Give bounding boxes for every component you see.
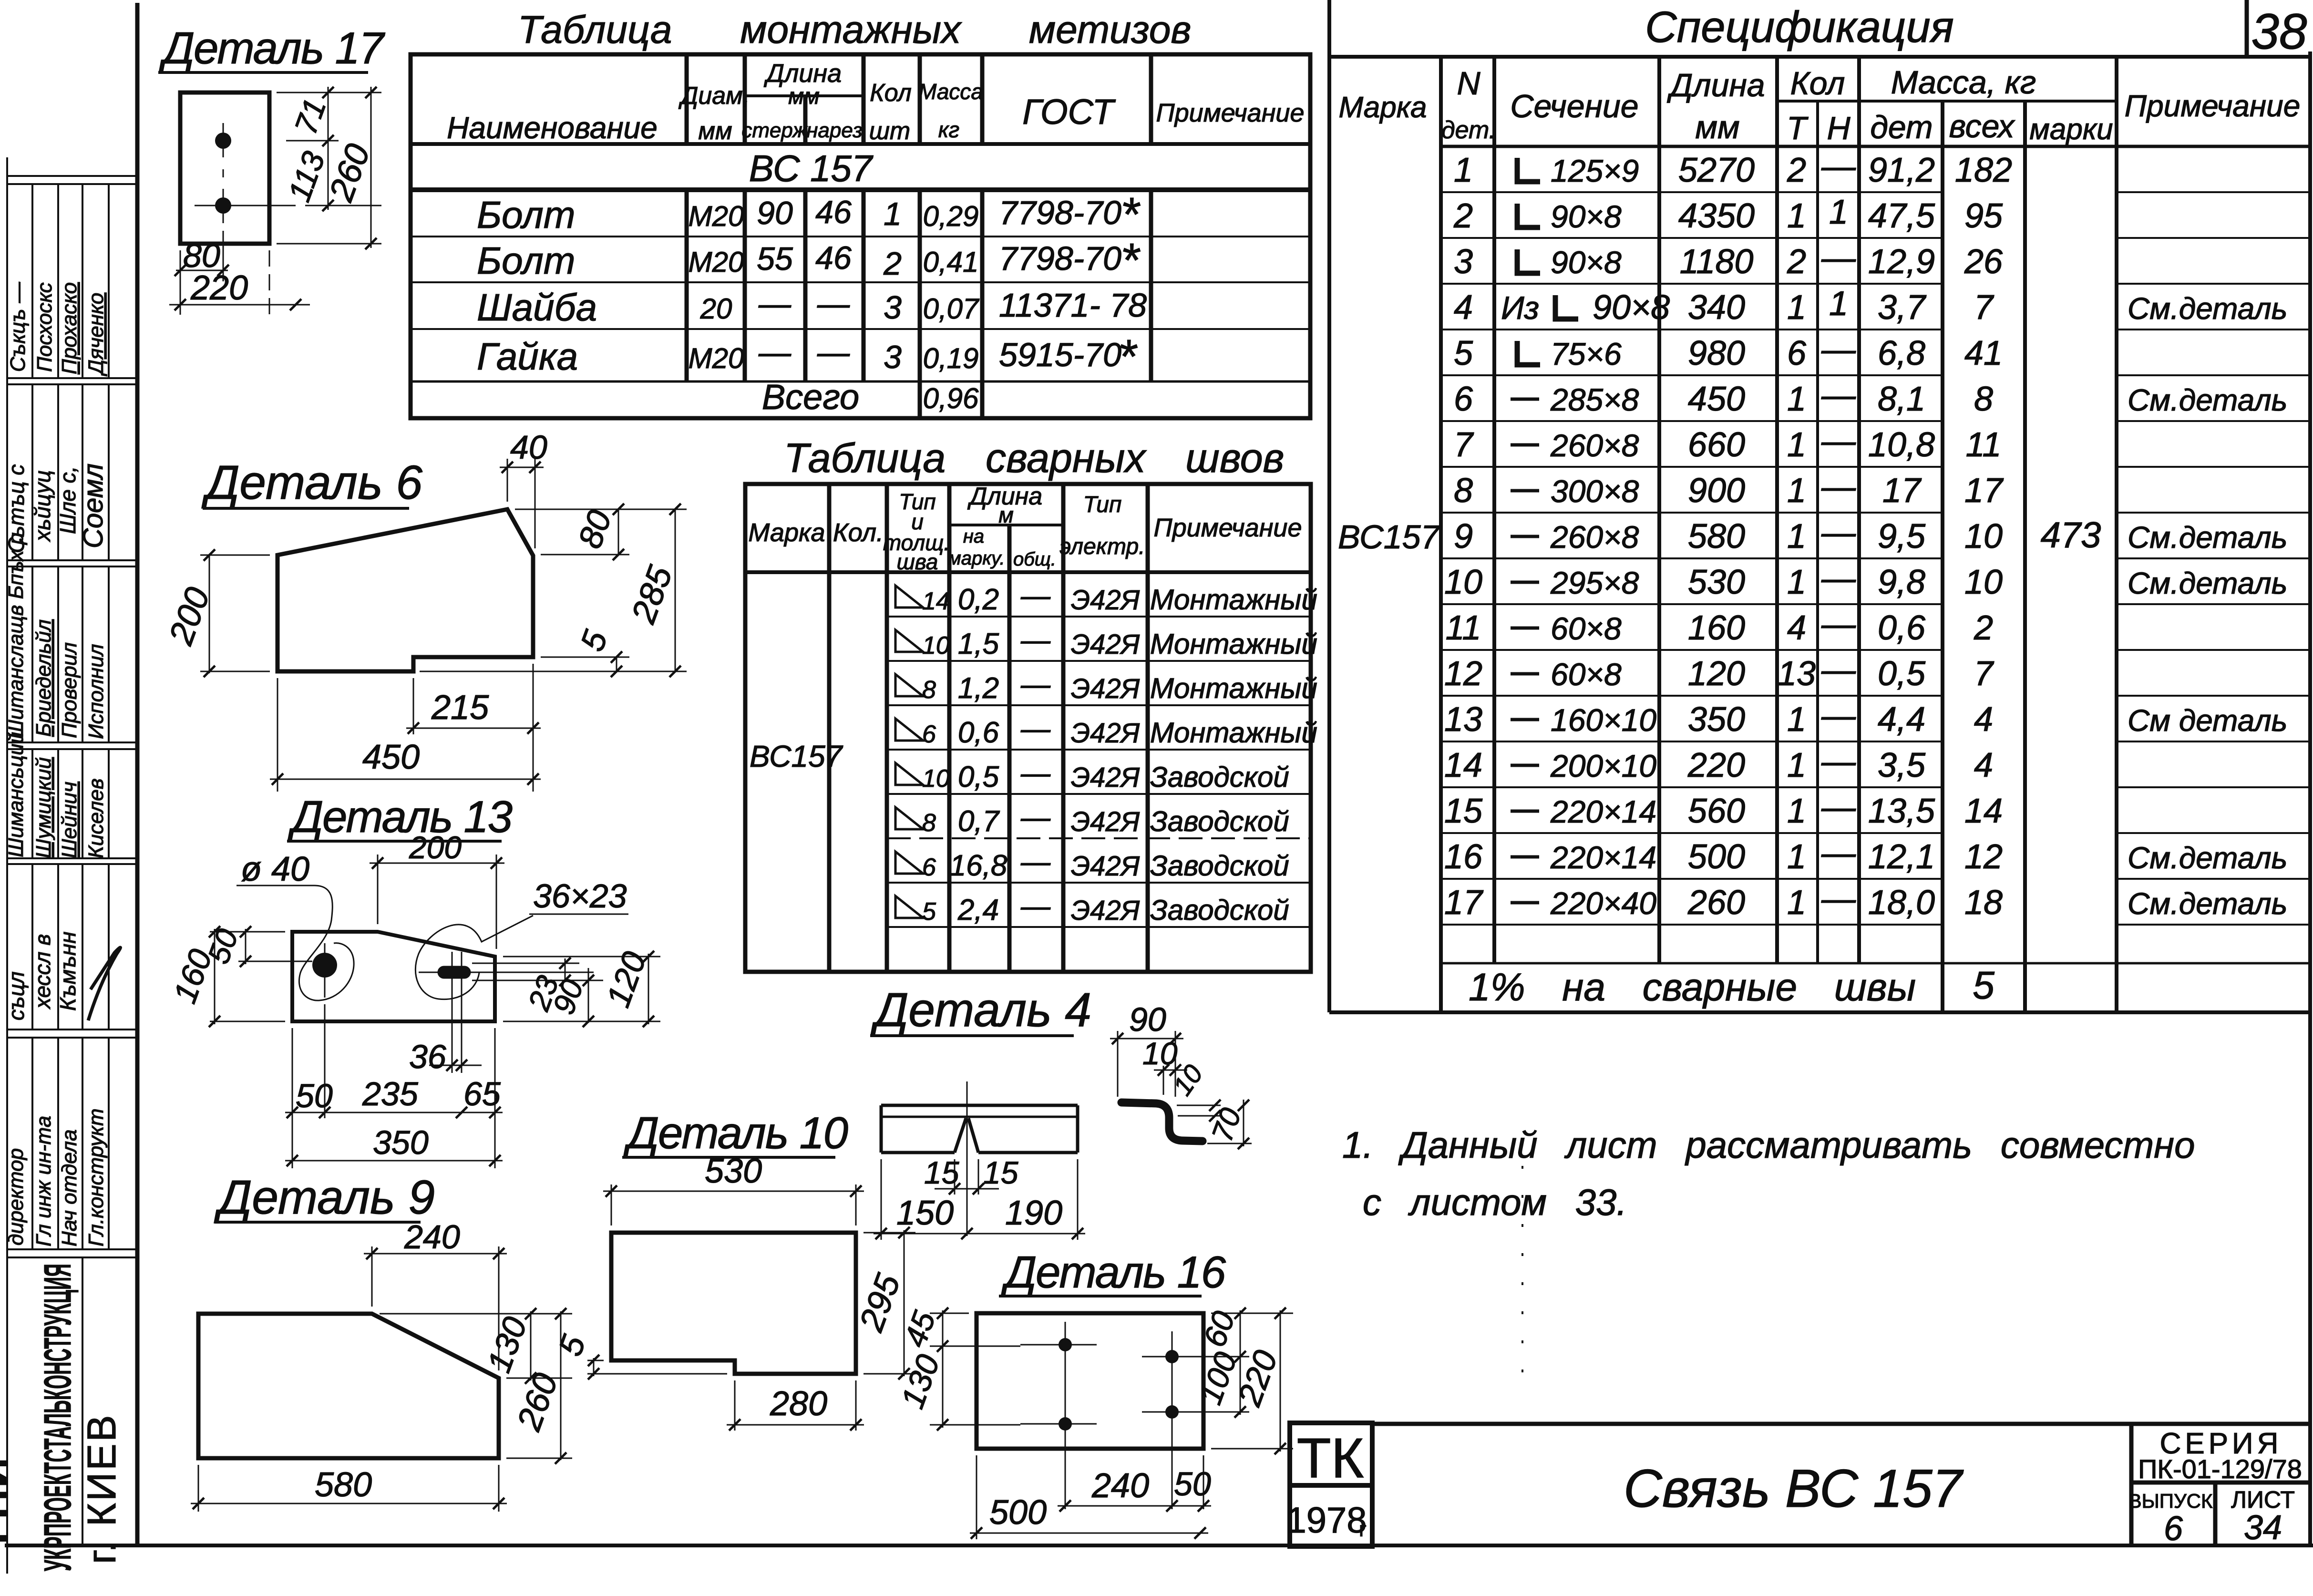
Detail 16 dims 45 130 left xyxy=(930,1310,1020,1428)
svg-text:560: 560 xyxy=(1688,792,1745,830)
svg-text:Шейнич: Шейнич xyxy=(58,782,81,858)
svg-text:—: — xyxy=(1821,788,1856,826)
svg-text:11: 11 xyxy=(1446,609,1481,647)
Detail 13 hole callout loops xyxy=(236,886,628,1000)
Detail 4 dims 150 190 xyxy=(874,1233,1085,1235)
svg-text:5: 5 xyxy=(1454,334,1473,372)
vertical crease dotted line xyxy=(1521,1166,1523,1392)
svg-text:Деталь 10: Деталь 10 xyxy=(623,1108,848,1158)
Detail 16 plate outline xyxy=(977,1313,1203,1449)
svg-text:3,7: 3,7 xyxy=(1878,288,1927,327)
svg-text:15: 15 xyxy=(983,1155,1018,1190)
svg-text:—: — xyxy=(817,334,850,371)
svg-text:5270: 5270 xyxy=(1678,151,1755,189)
svg-text:См.деталь: См.деталь xyxy=(2128,886,2287,921)
svg-text:7798-70: 7798-70 xyxy=(999,194,1121,231)
svg-text:10: 10 xyxy=(922,632,950,659)
svg-text:6: 6 xyxy=(2164,1510,2183,1548)
svg-text:*: * xyxy=(1121,234,1141,287)
svg-text:ВС 157: ВС 157 xyxy=(749,147,874,189)
svg-text:всех: всех xyxy=(1949,108,2015,144)
Detail 16 dim 500 xyxy=(970,1455,1208,1539)
svg-text:—: — xyxy=(1821,559,1856,597)
svg-text:ТК: ТК xyxy=(1297,1427,1364,1490)
svg-text:60×8: 60×8 xyxy=(1551,611,1622,646)
svg-text:8: 8 xyxy=(1454,472,1473,510)
svg-text:Спецификация: Спецификация xyxy=(1645,3,1954,51)
svg-text:240: 240 xyxy=(404,1218,460,1256)
Detail 13 plate outline xyxy=(292,932,495,1021)
Detail 13 dims 50 160 left xyxy=(210,929,312,1024)
Detail 17 hole top xyxy=(215,133,231,149)
svg-text:кг: кг xyxy=(938,117,959,142)
svg-text:—: — xyxy=(1020,890,1051,923)
svg-text:0,7: 0,7 xyxy=(958,805,1000,838)
svg-text:220: 220 xyxy=(190,269,248,307)
svg-text:300×8: 300×8 xyxy=(1551,474,1639,509)
svg-text:350: 350 xyxy=(373,1124,429,1161)
svg-text:2: 2 xyxy=(1974,609,1993,647)
svg-text:260: 260 xyxy=(1687,884,1745,922)
svg-text:2: 2 xyxy=(1787,243,1806,281)
svg-text:26: 26 xyxy=(1964,243,2003,281)
svg-text:Марка: Марка xyxy=(748,518,825,547)
svg-text:Э42Я: Э42Я xyxy=(1071,629,1140,660)
svg-text:95: 95 xyxy=(1964,197,2003,235)
svg-text:2,4: 2,4 xyxy=(957,894,999,927)
svg-text:2: 2 xyxy=(1787,151,1806,189)
svg-text:См.деталь: См.деталь xyxy=(2128,520,2287,555)
Detail 13 dim 36 xyxy=(446,1060,458,1071)
bent piece dim 10 right xyxy=(1177,1105,1221,1106)
svg-text:М20: М20 xyxy=(689,342,744,374)
Detail 17 plate xyxy=(180,93,269,244)
svg-text:7: 7 xyxy=(1974,288,1994,327)
Detail 13 dims 23 90 120 right xyxy=(472,954,660,1024)
svg-text:Примечание: Примечание xyxy=(1156,99,1305,127)
svg-text:240: 240 xyxy=(1091,1467,1149,1505)
svg-text:1: 1 xyxy=(1829,285,1848,323)
svg-text:450: 450 xyxy=(362,738,420,776)
svg-text:3,5: 3,5 xyxy=(1878,746,1926,784)
svg-text:Заводской: Заводской xyxy=(1150,805,1289,837)
svg-text:120: 120 xyxy=(1688,655,1745,693)
svg-text:12: 12 xyxy=(1444,655,1482,693)
svg-text:—: — xyxy=(758,334,792,371)
Detail 10 dim 5 left xyxy=(587,1358,727,1376)
svg-text:Длина: Длина xyxy=(1666,67,1765,103)
svg-text:200: 200 xyxy=(409,830,462,865)
svg-text:5: 5 xyxy=(1973,964,1994,1007)
Detail 16 dims 240 50 bottom xyxy=(1058,1505,1211,1507)
svg-text:—: — xyxy=(1821,697,1856,735)
svg-text:150: 150 xyxy=(896,1194,954,1232)
svg-text:450: 450 xyxy=(1688,380,1745,418)
svg-text:90×8: 90×8 xyxy=(1593,288,1670,327)
svg-text:5: 5 xyxy=(551,1330,593,1360)
bent piece dim 10 top xyxy=(1163,1066,1164,1095)
svg-text:Шле с,: Шле с, xyxy=(55,466,80,534)
Detail 16 dims 60 100 220 right xyxy=(1211,1310,1293,1452)
bent piece dim 90 xyxy=(1110,1031,1183,1097)
svg-text:Монтажный: Монтажный xyxy=(1150,717,1317,749)
svg-text:15: 15 xyxy=(1444,792,1483,830)
svg-text:Деталь 17: Деталь 17 xyxy=(159,23,386,73)
svg-text:—: — xyxy=(1821,834,1856,872)
svg-text:—: — xyxy=(758,286,792,322)
svg-text:ВС157: ВС157 xyxy=(1338,518,1441,556)
svg-text:580: 580 xyxy=(1688,517,1745,556)
svg-text:Таблица монтажных метизов: Таблица монтажных метизов xyxy=(518,8,1191,51)
Detail 13 dims 50 235 65 bottom xyxy=(285,1004,503,1168)
svg-text:15: 15 xyxy=(924,1155,959,1190)
svg-text:280: 280 xyxy=(770,1385,827,1423)
svg-text:1: 1 xyxy=(1787,884,1806,922)
svg-text:Болт: Болт xyxy=(477,239,576,282)
svg-text:6: 6 xyxy=(922,721,936,748)
svg-text:260: 260 xyxy=(322,139,378,206)
svg-text:70: 70 xyxy=(1206,1104,1248,1146)
svg-text:—: — xyxy=(1821,147,1856,185)
svg-text:дет: дет xyxy=(1870,109,1933,145)
svg-text:34: 34 xyxy=(2244,1509,2282,1547)
svg-text:Э42Я: Э42Я xyxy=(1071,851,1140,882)
svg-text:4: 4 xyxy=(1974,746,1993,784)
svg-text:марки: марки xyxy=(2029,113,2113,146)
svg-text:530: 530 xyxy=(1688,563,1745,601)
svg-text:0,2: 0,2 xyxy=(958,583,999,616)
svg-text:Примечание: Примечание xyxy=(1154,514,1302,542)
svg-text:12,9: 12,9 xyxy=(1868,243,1935,281)
Detail 16 hole axis lines xyxy=(1020,1322,1249,1509)
svg-text:электр.: электр. xyxy=(1060,534,1145,559)
svg-text:Э42Я: Э42Я xyxy=(1071,806,1140,837)
svg-text:1978: 1978 xyxy=(1286,1500,1367,1541)
svg-text:11371- 78: 11371- 78 xyxy=(999,287,1147,324)
svg-text:46: 46 xyxy=(815,194,852,230)
svg-text:1: 1 xyxy=(1787,792,1806,830)
svg-text:Монтажный: Монтажный xyxy=(1150,584,1317,616)
svg-text:Э42Я: Э42Я xyxy=(1071,673,1140,704)
svg-text:на: на xyxy=(963,526,984,547)
svg-text:4: 4 xyxy=(1454,288,1473,327)
svg-text:Прохаско: Прохаско xyxy=(58,282,81,374)
svg-text:—: — xyxy=(1020,845,1051,878)
svg-text:4,4: 4,4 xyxy=(1878,700,1925,739)
svg-text:Э42Я: Э42Я xyxy=(1071,718,1140,749)
svg-text:1: 1 xyxy=(1787,380,1806,418)
svg-text:Проверил: Проверил xyxy=(58,642,81,738)
svg-text:Примечание: Примечание xyxy=(2125,89,2301,123)
svg-text:0,07: 0,07 xyxy=(923,293,980,325)
svg-text:Посхоскс: Посхоскс xyxy=(33,282,56,372)
svg-text:5: 5 xyxy=(922,898,936,926)
svg-text:4: 4 xyxy=(1787,609,1806,647)
svg-text:Сечение: Сечение xyxy=(1510,88,1638,124)
svg-text:0,6: 0,6 xyxy=(1878,609,1926,647)
svg-text:260×8: 260×8 xyxy=(1550,428,1639,463)
svg-text:—: — xyxy=(1020,579,1051,612)
svg-text:директор: директор xyxy=(4,1148,28,1246)
svg-text:530: 530 xyxy=(705,1152,762,1190)
svg-text:1: 1 xyxy=(1787,563,1806,601)
svg-text:—: — xyxy=(1020,712,1051,745)
svg-text:13: 13 xyxy=(1444,700,1482,739)
svg-text:—: — xyxy=(1020,668,1051,701)
weld symbols and row values xyxy=(895,586,923,918)
svg-text:10,8: 10,8 xyxy=(1868,426,1935,464)
svg-text:Наименование: Наименование xyxy=(447,111,658,145)
svg-text:75×6: 75×6 xyxy=(1551,336,1622,371)
svg-text:1: 1 xyxy=(1787,746,1806,784)
svg-text:5915-70: 5915-70 xyxy=(999,336,1121,373)
svg-text:190: 190 xyxy=(1005,1194,1062,1232)
svg-text:Масса: Масса xyxy=(918,79,983,104)
weld table grid xyxy=(745,484,1311,972)
svg-text:Дяченко: Дяченко xyxy=(84,293,108,377)
svg-text:См.деталь: См.деталь xyxy=(2128,841,2287,875)
svg-text:12,1: 12,1 xyxy=(1868,838,1935,876)
Detail 9 dims 130 260 right xyxy=(380,1311,572,1460)
svg-text:6: 6 xyxy=(1454,380,1473,418)
svg-text:340: 340 xyxy=(1688,288,1745,327)
svg-text:1,2: 1,2 xyxy=(958,672,999,705)
svg-text:мм: мм xyxy=(1695,109,1739,145)
svg-text:Диам,: Диам, xyxy=(678,82,750,110)
svg-text:3: 3 xyxy=(884,289,902,326)
svg-text:Таблица сварных швов: Таблица сварных швов xyxy=(784,435,1284,481)
svg-text:—: — xyxy=(1821,880,1856,918)
svg-text:съцл: съцл xyxy=(4,971,29,1020)
svg-text:220×14: 220×14 xyxy=(1550,794,1656,829)
svg-text:2: 2 xyxy=(1453,197,1473,235)
svg-text:500: 500 xyxy=(1688,838,1745,876)
svg-text:Кол: Кол xyxy=(1790,65,1845,102)
svg-text:Деталь 16: Деталь 16 xyxy=(1001,1247,1226,1297)
specification headers xyxy=(1338,64,2300,146)
svg-text:40: 40 xyxy=(510,429,547,466)
svg-text:580: 580 xyxy=(315,1466,372,1504)
Detail 13 dim 200 xyxy=(370,855,504,949)
Detail 6 plate outline xyxy=(278,509,533,671)
svg-text:130: 130 xyxy=(480,1312,534,1377)
svg-text:16: 16 xyxy=(1444,838,1483,876)
svg-text:1: 1 xyxy=(1454,151,1473,189)
svg-text:Э42Я: Э42Я xyxy=(1071,585,1140,616)
svg-text:—: — xyxy=(1821,422,1856,460)
svg-text:УКРПРОЕКТСТАЛЬКОНСТРУКЦИЯ: УКРПРОЕКТСТАЛЬКОНСТРУКЦИЯ xyxy=(36,1264,79,1571)
svg-text:1: 1 xyxy=(1787,197,1806,235)
svg-text:36: 36 xyxy=(409,1038,446,1075)
svg-text:113: 113 xyxy=(281,147,332,206)
svg-text:Всего: Всего xyxy=(762,377,859,417)
svg-text:N: N xyxy=(1457,65,1480,102)
svg-text:ПК-01-129/78: ПК-01-129/78 xyxy=(2138,1454,2302,1484)
svg-text:1: 1 xyxy=(1787,288,1806,327)
svg-text:295: 295 xyxy=(852,1269,908,1337)
svg-text:10: 10 xyxy=(922,765,950,793)
svg-text:50: 50 xyxy=(296,1077,333,1114)
svg-text:0,19: 0,19 xyxy=(923,342,979,374)
svg-text:1: 1 xyxy=(1787,472,1806,510)
svg-text:12: 12 xyxy=(1964,838,2003,876)
svg-text:Къмънн: Къмънн xyxy=(55,932,80,1011)
svg-text:—: — xyxy=(1821,239,1856,277)
svg-text:Шитанслащв Бпъх р: Шитанслащв Бпъх р xyxy=(4,533,28,739)
svg-text:1: 1 xyxy=(1787,700,1806,739)
svg-text:—: — xyxy=(1020,801,1051,834)
svg-text:—: — xyxy=(1821,468,1856,506)
svg-text:11: 11 xyxy=(1966,426,2002,464)
svg-text:Деталь 6: Деталь 6 xyxy=(201,456,422,509)
svg-text:20: 20 xyxy=(700,293,732,325)
svg-text:ГОСТ: ГОСТ xyxy=(1022,92,1116,132)
svg-text:14: 14 xyxy=(1964,792,2003,830)
svg-text:6: 6 xyxy=(1787,334,1807,372)
svg-text:91,2: 91,2 xyxy=(1868,151,1935,189)
Detail 9 plate outline xyxy=(198,1314,499,1458)
svg-text:8,1: 8,1 xyxy=(1878,380,1925,418)
svg-text:1: 1 xyxy=(884,196,902,232)
TK stamp box xyxy=(1290,1423,1372,1546)
svg-text:220×40: 220×40 xyxy=(1550,886,1656,921)
Detail 13 dim 350 xyxy=(285,1160,503,1162)
svg-text:Монтажный: Монтажный xyxy=(1150,672,1317,704)
svg-text:473: 473 xyxy=(2041,515,2101,556)
svg-text:0,29: 0,29 xyxy=(923,200,979,232)
svg-text:7798-70: 7798-70 xyxy=(999,240,1121,277)
Detail 10 dim 530 xyxy=(603,1184,864,1225)
svg-text:Болт: Болт xyxy=(477,194,576,236)
svg-text:—: — xyxy=(1821,514,1856,552)
svg-text:18,0: 18,0 xyxy=(1868,884,1935,922)
svg-text:1: 1 xyxy=(1787,838,1806,876)
specification table grid xyxy=(1329,0,2310,1012)
svg-text:4350: 4350 xyxy=(1678,197,1755,235)
svg-text:80: 80 xyxy=(571,505,618,553)
svg-text:47,5: 47,5 xyxy=(1868,197,1935,235)
svg-text:Длина: Длина xyxy=(764,59,842,88)
svg-text:90×8: 90×8 xyxy=(1551,199,1622,234)
svg-text:295×8: 295×8 xyxy=(1550,565,1639,600)
svg-text:марку.: марку. xyxy=(948,548,1005,569)
svg-text:13,5: 13,5 xyxy=(1868,792,1935,830)
svg-text:1: 1 xyxy=(1787,517,1806,556)
svg-text:8: 8 xyxy=(1974,380,1993,418)
Detail 13 round hole xyxy=(312,953,337,978)
svg-text:3: 3 xyxy=(884,339,902,375)
svg-text:2: 2 xyxy=(883,246,902,282)
svg-text:10: 10 xyxy=(1444,563,1482,601)
svg-text:500: 500 xyxy=(989,1493,1047,1532)
Detail 6 dim 215 xyxy=(406,664,541,792)
svg-text:См.деталь: См.деталь xyxy=(2128,383,2287,417)
svg-text:0,5: 0,5 xyxy=(1878,655,1926,693)
svg-text:Деталь 4: Деталь 4 xyxy=(870,983,1091,1037)
svg-text:См.деталь: См.деталь xyxy=(2128,566,2287,600)
svg-text:Исполнил: Исполнил xyxy=(84,644,108,739)
svg-text:общ.: общ. xyxy=(1013,549,1056,570)
svg-text:Связь ВС 157: Связь ВС 157 xyxy=(1624,1459,1964,1518)
svg-text:Э42Я: Э42Я xyxy=(1071,762,1140,793)
Detail 4 bent angle piece xyxy=(1121,1102,1203,1141)
svg-text:—: — xyxy=(1821,742,1856,781)
svg-text:0,5: 0,5 xyxy=(958,761,999,793)
svg-text:90: 90 xyxy=(757,195,793,231)
svg-text:10: 10 xyxy=(1964,563,2003,601)
left strip signatures block B xyxy=(4,463,109,553)
svg-text:Соемл: Соемл xyxy=(78,463,109,548)
svg-text:—: — xyxy=(1821,376,1856,414)
svg-text:182: 182 xyxy=(1955,151,2012,189)
svg-text:9,5: 9,5 xyxy=(1878,517,1926,556)
svg-text:Марка: Марка xyxy=(1338,91,1427,124)
svg-text:160: 160 xyxy=(1688,609,1745,647)
svg-text:0,6: 0,6 xyxy=(958,716,999,749)
bent piece dim 70 xyxy=(1207,1143,1252,1144)
svg-text:стерж: стерж xyxy=(741,119,808,142)
svg-text:13: 13 xyxy=(1778,655,1816,693)
svg-text:хессл в: хессл в xyxy=(30,934,55,1009)
svg-text:200×10: 200×10 xyxy=(1550,748,1656,783)
svg-text:г: г xyxy=(1359,1518,1367,1541)
svg-text:М20: М20 xyxy=(689,246,744,278)
svg-text:16,8: 16,8 xyxy=(950,849,1007,882)
svg-text:980: 980 xyxy=(1688,334,1745,372)
svg-text:Э42Я: Э42Я xyxy=(1071,895,1140,926)
svg-text:мм: мм xyxy=(788,84,820,109)
svg-text:См деталь: См деталь xyxy=(2128,703,2287,738)
svg-text:7: 7 xyxy=(1974,655,1994,693)
svg-text:1180: 1180 xyxy=(1680,243,1754,281)
svg-text:90: 90 xyxy=(1129,1001,1166,1038)
svg-text:Шумицкий: Шумицкий xyxy=(32,757,55,858)
svg-text:0,96: 0,96 xyxy=(923,382,979,414)
svg-text:660: 660 xyxy=(1688,426,1745,464)
Detail 13 slot hole 36x23 xyxy=(444,966,464,979)
left strip rotated texts block A xyxy=(6,281,108,377)
svg-text:3: 3 xyxy=(1454,243,1473,281)
Detail 10 dim 295 right xyxy=(864,1230,915,1376)
svg-text:Т: Т xyxy=(1787,110,1809,146)
svg-text:Деталь 9: Деталь 9 xyxy=(214,1171,435,1224)
svg-text:260×8: 260×8 xyxy=(1550,519,1639,555)
page number 38 divider xyxy=(2245,0,2249,56)
svg-text:125×9: 125×9 xyxy=(1551,153,1639,188)
svg-text:6,8: 6,8 xyxy=(1878,334,1925,372)
svg-text:6: 6 xyxy=(922,854,936,881)
svg-text:—: — xyxy=(1821,330,1856,369)
svg-text:шт: шт xyxy=(869,117,910,145)
svg-text:41: 41 xyxy=(1964,334,2003,372)
svg-text:г. КИЕВ: г. КИЕВ xyxy=(79,1413,124,1564)
Detail 9 dim 580 xyxy=(191,1465,507,1512)
left strip names block D xyxy=(4,732,108,858)
Detail 6 dim 200 xyxy=(200,555,270,673)
svg-text:900: 900 xyxy=(1688,472,1745,510)
mounting hardware table grid xyxy=(411,54,1310,418)
svg-text:8: 8 xyxy=(922,809,936,837)
svg-text:—: — xyxy=(1020,624,1051,657)
svg-text:7: 7 xyxy=(1454,426,1474,464)
svg-text:1,5: 1,5 xyxy=(958,628,999,660)
svg-text:220×14: 220×14 xyxy=(1550,840,1656,875)
Detail 16 holes xyxy=(1059,1338,1072,1351)
svg-text:36×23: 36×23 xyxy=(533,877,627,915)
svg-text:1. Данный лист рассматривать с: 1. Данный лист рассматривать совместно xyxy=(1342,1124,2195,1166)
svg-text:Съкцъ —: Съкцъ — xyxy=(6,281,30,372)
title block frame xyxy=(1372,1424,2310,1545)
